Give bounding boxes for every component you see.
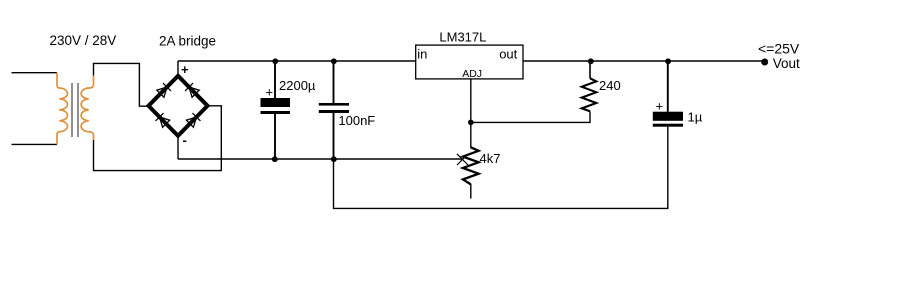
- diode D2 (upper-right): [185, 83, 200, 98]
- diode D1 (upper-left): [156, 83, 171, 98]
- node: Vout terminal: [761, 59, 768, 66]
- capacitor C1 bottom lead: [274, 114, 276, 159]
- capacitor C2 100nF plates: [319, 103, 349, 106]
- svg-text:2A bridge: 2A bridge: [159, 33, 216, 48]
- wiper arrowhead: [457, 154, 468, 165]
- diode D4 (lower-right): [186, 113, 201, 128]
- capacitor C3 1µ plates: [653, 112, 683, 121]
- svg-text:LM317L: LM317L: [439, 29, 486, 44]
- svg-text:ADJ: ADJ: [462, 68, 482, 80]
- node: R1 top junction: [588, 58, 594, 64]
- node: C3 top junction: [665, 58, 671, 64]
- wire secondary top to bridge AC1: [94, 63, 149, 106]
- wire top rail right (LM317 out to Vout): [523, 60, 765, 62]
- wire bridge minus down to bottom rail: [177, 136, 179, 159]
- wire bottom return (C2 bottom to C3 bottom): [334, 127, 668, 209]
- svg-text:out: out: [499, 46, 517, 61]
- wire secondary bottom to bridge AC2: [94, 106, 222, 171]
- svg-text:240: 240: [599, 78, 621, 93]
- resistor R1 240 zigzag: [582, 78, 597, 111]
- node: C2 top junction: [331, 58, 337, 64]
- svg-text:100nF: 100nF: [338, 113, 375, 128]
- wire bottom rail to potentiometer wiper arrow: [178, 158, 463, 160]
- svg-text:<=25V: <=25V: [758, 40, 800, 56]
- svg-text:Vout: Vout: [773, 56, 800, 71]
- svg-text:+: +: [656, 99, 664, 114]
- svg-text:+: +: [181, 62, 189, 77]
- capacitor C2 100nF top lead: [333, 61, 335, 103]
- svg-text:4k7: 4k7: [480, 151, 501, 166]
- diode D3 (lower-left): [156, 113, 171, 128]
- potentiometer R2 4k7 zigzag: [463, 147, 479, 184]
- capacitor C1 2200µ top lead: [274, 61, 276, 98]
- svg-text:230V / 28V: 230V / 28V: [50, 33, 117, 48]
- bridge rectifier 2A diamond: [149, 76, 208, 136]
- wire top rail left (bridge to LM317 in): [178, 60, 416, 62]
- capacitor C3 1µ top lead: [667, 61, 669, 112]
- svg-text:+: +: [266, 84, 274, 99]
- capacitor C1 2200µ plates: [261, 98, 291, 107]
- wire bridge plus up to top rail: [177, 61, 179, 76]
- svg-text:-: -: [183, 133, 187, 148]
- node: C1 top junction: [272, 58, 278, 64]
- wire input bottom terminal: [12, 143, 58, 145]
- transformer T1 primary winding: [57, 73, 68, 145]
- svg-text:in: in: [417, 46, 427, 61]
- svg-text:2200µ: 2200µ: [279, 78, 316, 93]
- capacitor C2 bottom lead: [333, 113, 335, 159]
- wire ADJ junction to R1 bottom: [471, 111, 590, 122]
- transformer T1 secondary winding: [81, 76, 93, 141]
- potentiometer R2 bottom lead (unconnected): [470, 184, 472, 199]
- wire input top terminal: [12, 72, 58, 74]
- potentiometer R2 top lead: [470, 122, 472, 147]
- node: ADJ junction: [468, 120, 474, 126]
- wire ADJ pin down: [470, 79, 472, 123]
- node: C2 bottom junction: [331, 156, 337, 162]
- transformer T1 core: [71, 83, 73, 137]
- regulator U1 LM317L box: [416, 45, 523, 79]
- svg-text:1µ: 1µ: [688, 110, 703, 125]
- resistor R1 240 top lead: [589, 61, 591, 78]
- node: C1 bottom junction: [272, 156, 278, 162]
